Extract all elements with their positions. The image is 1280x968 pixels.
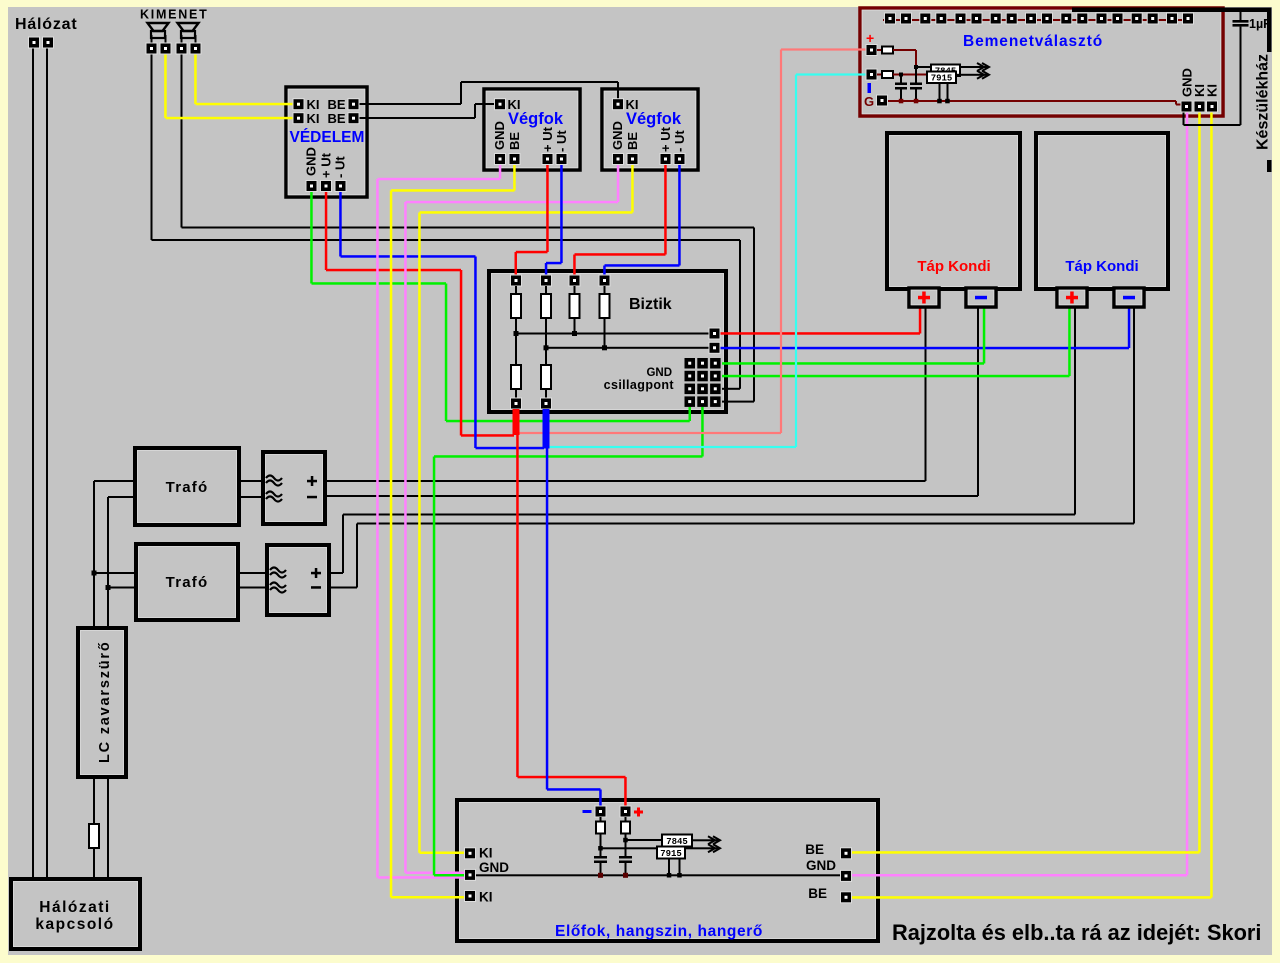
wire speaker1 terminal2 to VEDELEM KI2 (yellow) [164, 54, 167, 118]
svg-text:Rajzolta és elb..ta rá az idej: Rajzolta és elb..ta rá az idejét: Skori [892, 920, 1261, 945]
box VEDELEM (speaker protection) [286, 87, 367, 197]
thick - feed from Biztik [543, 409, 550, 449]
Biztik right terminal + out [709, 328, 720, 339]
Halozat terminal 1 [29, 37, 40, 48]
box Bemenetvalaszto (input selector) [860, 8, 1223, 116]
box Vegfok1 (power amp) [484, 89, 580, 170]
regulator ground pins [939, 83, 941, 102]
wire supply + down to Elofok + (red) [516, 433, 519, 777]
Bemenetvalaszto terminal KI2 [1207, 101, 1218, 112]
svg-text:KI: KI [307, 111, 320, 126]
wire Vegfok1 BE to Elofok KI2 (yellow) [513, 165, 516, 191]
svg-text:- Ut: - Ut [333, 156, 348, 178]
Vegfok1 terminal +Ut [542, 154, 553, 165]
speaker 2 terminal 1 [176, 43, 187, 54]
Elofok terminal KI2 [465, 891, 476, 902]
Elofok terminal BE1 [841, 848, 852, 859]
capacitor Ce1 [594, 856, 607, 859]
VEDELEM terminal GND [306, 181, 317, 192]
box Elofok (preamp) [457, 800, 878, 941]
Bemenetvalaszto - input label (blue bar) [868, 83, 872, 93]
Elofok + label [634, 811, 643, 814]
wire supply - to Bemenetvalaszto - (cyan) [550, 446, 797, 448]
fuse on - input [877, 74, 882, 76]
box rectifier1 [263, 452, 325, 524]
speaker 1 terminal 1 [146, 43, 157, 54]
VEDELEM terminal +Ut [321, 181, 332, 192]
wire VEDELEM +Ut to supply + (red) [325, 191, 328, 271]
wire star row2 to TapKondi2 + (green) [722, 375, 1070, 378]
wire VEDELEM GND to star point (green) [310, 191, 313, 284]
svg-text:GND: GND [610, 121, 625, 150]
node junction trafo2 tap a [92, 571, 97, 576]
wire supply + to Bemenetvalaszto + (salmon) [520, 432, 782, 434]
wire to Trafo2 input b [108, 587, 136, 589]
Vegfok2 terminal +Ut [660, 154, 671, 165]
Biztik input terminal 1 [511, 275, 522, 286]
wire to Trafo2 input a [94, 572, 136, 574]
Biztik input terminal 3 [569, 275, 580, 286]
capacitor Cb1 [900, 75, 902, 83]
box Halozati kapcsolo (mains switch) [11, 879, 140, 949]
Halozat terminal 2 [43, 37, 54, 48]
TapKondi1 - terminal box [966, 288, 996, 307]
Bemenetvalaszto terminal GND [1181, 101, 1192, 112]
wire Vegfok1 GND to Elofok GND (magenta) [499, 165, 502, 180]
svg-text:- Ut: - Ut [672, 130, 687, 152]
node dots on rails [514, 331, 519, 336]
wire Trafo2 to rectifier2 a [238, 572, 267, 574]
wire Biztik -rail to TapKondi2 - (blue) [720, 347, 1129, 350]
wire rectifier2 + to TapKondi2 + [329, 572, 343, 574]
fuse F6 lower [545, 348, 547, 365]
rectifier2 + output [311, 572, 321, 575]
Biztik - rail [546, 347, 709, 349]
maroon wire + to regulator [893, 49, 916, 51]
box rectifier2 [267, 545, 329, 615]
VEDELEM terminal KI1 [293, 99, 304, 110]
svg-text:kapcsoló: kapcsoló [35, 916, 114, 933]
svg-text:KI: KI [1205, 84, 1220, 97]
wire Vegfok1 -Ut to Biztik fuse2 (blue) [560, 165, 563, 264]
Biztik input terminal 4 [599, 275, 610, 286]
chassis Keszulekhaz outline right [1267, 8, 1272, 173]
Bemenetvalaszto - input terminal [866, 69, 877, 80]
Vegfok2 terminal -Ut [674, 154, 685, 165]
svg-text:+ Ut: + Ut [319, 152, 334, 178]
fuse F-mains on switch wire [89, 824, 99, 848]
wire Trafo1 to rectifier1 a [239, 480, 263, 482]
wire mains L2 from Halozat to switch [46, 48, 48, 879]
speaker 1 terminal 2 [160, 43, 171, 54]
wire LC filter to transformers right [107, 497, 109, 628]
wire speaker2 terminal1 to star ground rail [181, 54, 183, 228]
node junction + to regulator [623, 838, 628, 843]
svg-text:BE: BE [507, 132, 522, 150]
wire VEDELEM BE1 to Vegfok2 KI [359, 103, 461, 105]
speaker 1 symbol [148, 23, 169, 43]
svg-text:Bemenetválasztó: Bemenetválasztó [963, 33, 1103, 50]
svg-text:Trafó: Trafó [166, 574, 209, 591]
Bemenetvalaszto top input terminal row [883, 19, 1193, 21]
wire rectifier2 - to TapKondi2 - [329, 587, 357, 589]
box TapKondi1 (supply capacitor) [887, 133, 1020, 289]
svg-text:GND: GND [492, 121, 507, 150]
TapKondi1 + terminal box [909, 288, 939, 307]
thick + feed from Biztik [513, 409, 520, 435]
Elofok terminal GND left [465, 869, 476, 880]
svg-text:7915: 7915 [660, 849, 682, 859]
wire rectifier1 + to TapKondi1 + [325, 480, 926, 482]
svg-text:+ Ut: + Ut [658, 126, 673, 152]
svg-text:BE: BE [805, 842, 824, 857]
svg-text:KI: KI [479, 846, 493, 861]
regulator U4 output arrow [685, 847, 718, 849]
fuse F4 [604, 286, 606, 294]
svg-text:KI: KI [479, 890, 493, 905]
Bemenetvalaszto + input terminal [866, 45, 877, 56]
chassis Keszulekhaz outline top [1072, 8, 1272, 13]
fuse F5 lower [515, 334, 517, 366]
speaker 2 terminal 2 [190, 43, 201, 54]
svg-text:GND: GND [806, 858, 836, 873]
box LC zavarszuro (LC mains filter) [78, 628, 126, 777]
Biztik bottom terminal - [541, 398, 552, 409]
wire VEDELEM BE2 to Vegfok1 KI [359, 117, 475, 119]
wire star row1 to TapKondi1 - (green) [722, 362, 984, 365]
Vegfok2 terminal BE [627, 154, 638, 165]
regulator ground pins to rail [668, 860, 670, 876]
regulator U3 output arrow [692, 839, 718, 841]
wire supply - down to Elofok - (blue) [546, 448, 549, 790]
svg-text:1µF: 1µF [1249, 17, 1271, 31]
capacitor Cb2 [915, 67, 917, 83]
Biztik bottom terminal + [511, 398, 522, 409]
svg-text:KI: KI [307, 97, 320, 112]
box TapKondi2 (supply capacitor) [1036, 133, 1168, 289]
node junction + reg [914, 65, 918, 69]
wire Bemenetvalaszto GND to Elofok GND right (magenta) [1186, 112, 1189, 875]
wire mains L1 from Halozat to switch [32, 48, 34, 879]
fuse on - supply [600, 817, 602, 822]
regulator U2 output arrow [956, 74, 987, 76]
wire Trafo1 to rectifier1 b [239, 496, 263, 498]
Vegfok1 terminal GND [495, 154, 506, 165]
svg-text:BE: BE [625, 132, 640, 150]
svg-text:BE: BE [328, 111, 346, 126]
wire Vegfok2 GND to Elofok GND (magenta) [617, 165, 620, 203]
maroon wire - to regulator [893, 74, 928, 76]
wire Trafo2 to rectifier2 b [238, 587, 267, 589]
wire Vegfok2 BE to Elofok KI1 (yellow) [631, 165, 634, 213]
wire speaker1 terminal1 to star ground rail [151, 54, 153, 240]
svg-text:BE: BE [808, 886, 827, 901]
node junction trafo2 tap b [106, 585, 111, 590]
svg-text:- Ut: - Ut [554, 130, 569, 152]
svg-text:Hálózat: Hálózat [15, 16, 78, 33]
Elofok terminal GND right [841, 870, 852, 881]
svg-text:7915: 7915 [931, 74, 953, 84]
node junction - to regulator [598, 846, 603, 851]
svg-text:G: G [864, 94, 874, 109]
wire Biztik +rail to TapKondi1 + (red) [720, 332, 920, 335]
Bemenetvalaszto terminal KI1 [1194, 101, 1205, 112]
wire rectifier1 - to TapKondi1 - [325, 495, 978, 497]
capacitor C1 1uF to chassis [1233, 20, 1249, 23]
wire switch to LC filter left [93, 777, 95, 824]
svg-text:LC zavarszürő: LC zavarszürő [97, 640, 113, 763]
Vegfok2 terminal GND [613, 154, 624, 165]
box Trafo2 (transformer) [136, 544, 238, 620]
wire Bemenetvalaszto GND to chassis capacitor [1183, 112, 1185, 125]
label Keszulekhaz rotated [1253, 52, 1272, 160]
wire Bemenetvalaszto KI2 to Elofok BE2 (yellow) [1210, 112, 1213, 898]
regulator U4 7915 [657, 847, 685, 859]
Elofok terminal KI1 [465, 848, 476, 859]
Elofok - label [583, 810, 592, 813]
fuse F3 [574, 286, 576, 294]
Elofok + supply terminal [620, 806, 631, 817]
Elofok internal ground rail [476, 874, 846, 876]
Biztik right terminal - out [709, 342, 720, 353]
Vegfok1 terminal KI [495, 99, 506, 110]
star ground point terminal grid [685, 358, 696, 369]
svg-text:BE: BE [328, 97, 346, 112]
VEDELEM terminal BE1 [348, 99, 359, 110]
node dots on ground rail [899, 99, 904, 104]
svg-text:csillagpont: csillagpont [604, 378, 675, 392]
VEDELEM terminal KI2 [293, 113, 304, 124]
fuse on + supply [625, 817, 627, 822]
svg-text:+ Ut: + Ut [540, 126, 555, 152]
wire to Trafo1 input b [108, 496, 135, 498]
wire Vegfok1 +Ut to Biztik fuse1 (red) [546, 165, 549, 253]
Vegfok1 terminal BE [509, 154, 520, 165]
fuse on + input [877, 49, 882, 51]
rectifier1 AC symbols [266, 476, 282, 486]
svg-text:GND: GND [479, 860, 509, 875]
wire Vegfok2 +Ut to Biztik fuse3 (red) [664, 165, 667, 255]
svg-text:GND: GND [304, 147, 319, 176]
svg-text:Végfok: Végfok [626, 110, 682, 128]
wire VEDELEM -Ut to supply - (blue) [339, 191, 342, 257]
Elofok - supply terminal [595, 806, 606, 817]
svg-text:KIMENET: KIMENET [140, 8, 209, 22]
node junction - reg [899, 73, 903, 77]
svg-text:Táp Kondi: Táp Kondi [917, 258, 990, 275]
regulator U1 output arrow [959, 66, 987, 68]
box Biztik (fuse board) [489, 271, 726, 412]
TapKondi2 - terminal box [1114, 288, 1144, 307]
rectifier2 AC symbols [270, 568, 286, 578]
svg-text:Biztik: Biztik [629, 296, 672, 313]
wire Bemenetvalaszto KI1 to Elofok BE1 (yellow) [1198, 112, 1201, 853]
Vegfok2 terminal KI [613, 99, 624, 110]
wire Vegfok2 -Ut to Biztik fuse4 (blue) [678, 165, 681, 266]
svg-text:Trafó: Trafó [166, 479, 209, 496]
regulator U3 7845 [662, 835, 692, 847]
VEDELEM terminal BE2 [348, 113, 359, 124]
wire switch to LC filter right [107, 777, 109, 879]
svg-text:Készülékház: Készülékház [1255, 54, 1272, 150]
Bemenetvalaszto internal ground rail [888, 100, 1176, 102]
speaker 2 symbol [178, 23, 199, 43]
box Trafo1 (transformer) [135, 448, 239, 525]
svg-text:VÉDELEM: VÉDELEM [290, 129, 365, 146]
svg-text:Végfok: Végfok [508, 110, 564, 128]
wire speaker2 terminal2 to VEDELEM KI1 (yellow) [194, 54, 197, 104]
wire LC filter to transformers left [93, 481, 95, 628]
Vegfok1 terminal -Ut [556, 154, 567, 165]
box Vegfok2 (power amp) [602, 89, 698, 170]
rectifier1 + output [307, 480, 317, 483]
svg-text:Hálózati: Hálózati [39, 899, 110, 916]
VEDELEM terminal -Ut [335, 181, 346, 192]
regulator U2 7915 [927, 72, 956, 84]
node dots caps to rail [598, 873, 603, 878]
TapKondi2 + terminal box [1057, 288, 1087, 307]
wire to Trafo1 input a [94, 480, 135, 482]
rectifier2 - output [311, 586, 321, 589]
wire star point col2 to Elofok GND (green) [701, 407, 704, 457]
svg-text:Táp Kondi: Táp Kondi [1065, 258, 1138, 275]
Biztik input terminal 2 [541, 275, 552, 286]
wire star point col1 to green net [446, 420, 690, 423]
svg-text:Előfok, hangszin, hangerő: Előfok, hangszin, hangerő [555, 923, 763, 940]
fuse F1 [515, 286, 517, 294]
regulator U1 7845 [931, 65, 960, 77]
fuse F2 [545, 286, 547, 294]
capacitor Ce2 [619, 856, 632, 859]
Biztik + rail [516, 333, 709, 335]
Elofok terminal BE2 [841, 892, 852, 903]
rectifier1 - output [307, 496, 317, 499]
svg-text:+: + [866, 30, 874, 46]
